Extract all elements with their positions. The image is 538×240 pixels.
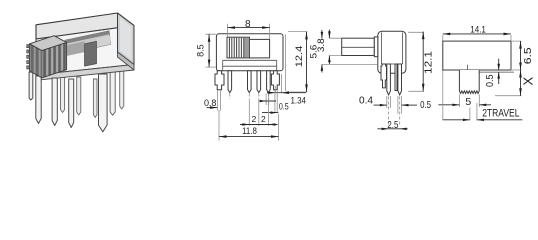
dimension 2TRAVEL [443,71,523,122]
base strip front [36,65,134,81]
slot opening [249,39,269,58]
svg-text:8: 8 [245,19,251,30]
svg-text:0.5: 0.5 [420,99,431,111]
svg-text:0.8: 0.8 [204,98,217,109]
dimension 12.4 [286,32,308,92]
dimension 5 [438,95,491,109]
svg-text:2TRAVEL: 2TRAVEL [482,108,519,120]
body front face [36,26,134,75]
dimension 0.5 right pin [260,91,289,114]
dimension 3.8 [316,30,341,65]
body side view [378,31,406,73]
slot recess [65,31,111,54]
dimension X [495,70,536,96]
body right face [118,13,135,65]
centerline dashes under pins [230,94,269,100]
knob left ribbed face [29,44,42,78]
slot mark tick [467,65,469,70]
svg-text:2.5: 2.5 [387,119,398,131]
dimension 2.5 [377,97,407,131]
PANEL2 front view [196,19,308,141]
body cover front view [216,34,283,71]
pin 4 [267,71,271,93]
base seam lines [223,60,277,70]
pin 1 [228,71,232,93]
front pins row [29,72,33,100]
bracket side [381,64,387,88]
PANEL3 side view [308,30,434,131]
knob ribbed front view [227,37,250,58]
svg-text:5.6: 5.6 [308,45,318,59]
right mounting bracket [271,71,279,90]
svg-text:14.1: 14.1 [470,25,486,35]
left mounting bracket [215,71,224,90]
PANEL1 3D perspective view [27,13,134,132]
knob outline [29,43,66,78]
inner seams [381,33,402,65]
PANEL4 bottom/travel view [438,25,535,122]
svg-text:12.1: 12.1 [423,51,435,74]
dimension 5.6 [308,30,378,73]
base strip right [118,52,135,70]
dimension 14.1 [443,25,511,41]
knob stem in slot [85,41,97,66]
svg-text:0.5: 0.5 [485,74,496,87]
svg-text:0.4: 0.4 [359,94,373,106]
svg-text:5: 5 [465,96,471,108]
svg-text:11.8: 11.8 [242,126,257,137]
svg-text:6.5: 6.5 [522,47,534,64]
svg-text:12.4: 12.4 [294,46,304,68]
pin A side [387,64,391,95]
knob right ribbed face [42,43,67,78]
svg-text:0.5: 0.5 [279,102,289,112]
svg-text:8.5: 8.5 [196,44,206,57]
dimension 8.5 [196,34,216,67]
svg-text:X: X [521,77,536,86]
pin 2 [248,71,252,93]
svg-text:2: 2 [252,114,257,124]
dimension 1.34 [267,74,306,106]
shaft collar [374,37,378,57]
short back pin [395,64,397,91]
dimension 0.4 [359,94,390,108]
knob top face [29,36,66,51]
knob with serrated bottom [459,70,479,94]
pin B side [398,64,402,95]
dimension 12.1 [408,32,434,92]
dimension 8 [228,19,270,39]
body outline [443,41,511,70]
dimension 0.8 [204,91,221,111]
dimension 0.5 travel [485,59,500,87]
dimension 2 2 [240,99,278,126]
dimension 11.8 [219,110,279,141]
back pins row [61,75,65,113]
dimension 6.5 [512,41,534,70]
shaft (knob side) [342,38,375,55]
knob serrated left edge teeth [27,45,30,48]
svg-text:1.34: 1.34 [290,96,306,106]
cover edge line [479,71,514,73]
svg-text:2: 2 [261,114,266,124]
dimension 0.5 [398,96,431,114]
pin 3 [257,71,261,93]
body top face [36,13,134,39]
